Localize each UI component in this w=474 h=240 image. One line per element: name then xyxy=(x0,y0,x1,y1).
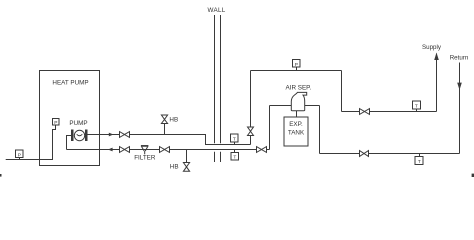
valve B3 (gate valve near wall) xyxy=(257,147,267,153)
svg-text:Supply: Supply xyxy=(422,44,442,51)
svg-text:WALL: WALL xyxy=(207,7,225,14)
svg-text:AIR SEP.: AIR SEP. xyxy=(286,84,312,91)
label EXP. TANK xyxy=(288,121,305,137)
valve HB (hose bib, vertical) xyxy=(183,163,189,172)
valve HB (hose bib, vertical) xyxy=(161,115,167,124)
svg-text:T: T xyxy=(233,137,236,143)
svg-text:FILTER: FILTER xyxy=(134,155,156,162)
valve B1 (gate valve) xyxy=(120,147,130,153)
svg-text:P: P xyxy=(18,152,21,158)
wire air separator line xyxy=(270,105,320,107)
valve A2 (gate valve, vertical) xyxy=(248,127,254,136)
wall (double line, upper segment) xyxy=(215,15,221,143)
wire bottom return run xyxy=(320,153,460,155)
filter (strainer funnel) xyxy=(141,146,149,154)
wire pipe B (return to pump suction) xyxy=(67,149,270,151)
flow arrow (toward pump) xyxy=(108,148,113,152)
svg-text:HB: HB xyxy=(170,163,179,170)
valve A1 (gate valve) xyxy=(120,132,130,138)
valve B2 (gate valve) xyxy=(160,147,170,153)
valve S1 (gate valve) xyxy=(360,109,370,115)
wire riser to overhead header xyxy=(250,71,252,145)
svg-text:HEAT PUMP: HEAT PUMP xyxy=(52,79,88,86)
svg-text:Return: Return xyxy=(450,54,469,61)
wire pump suction elbow xyxy=(67,136,72,150)
valve R1 (gate valve) xyxy=(360,151,369,157)
wire pipe A (pump discharge) xyxy=(88,135,251,145)
svg-text:HB: HB xyxy=(169,116,178,123)
wire header drop to supply run xyxy=(341,71,343,112)
wall (double line, lower segment below pipes) xyxy=(215,152,221,162)
svg-text:T: T xyxy=(418,159,421,165)
wire overhead header xyxy=(251,70,342,72)
svg-text:EXP.: EXP. xyxy=(289,121,303,128)
sensing line from pump gauge to remote gauge xyxy=(6,125,56,160)
arrow Return (down) xyxy=(457,83,462,90)
svg-text:PUMP: PUMP xyxy=(69,120,87,127)
air separator xyxy=(291,92,306,110)
svg-text:P: P xyxy=(295,62,298,68)
gauge P (on header) xyxy=(293,60,301,71)
wire hose-bib riser xyxy=(164,124,166,135)
thermometer T (return, at wall) xyxy=(231,150,239,161)
heat pump enclosure box xyxy=(40,71,100,166)
frame corner mark (bottom left) xyxy=(0,174,2,177)
expansion tank xyxy=(284,117,308,146)
thermometer T (supply, at wall) xyxy=(231,134,239,145)
svg-text:T: T xyxy=(415,104,418,110)
wire riser pipe B to air separator line xyxy=(269,106,271,150)
frame corner mark (bottom right) xyxy=(472,174,474,177)
wire air sep to expansion tank xyxy=(296,111,298,117)
remote gauge P (bottom left) xyxy=(16,150,24,160)
wire return drop xyxy=(459,63,461,154)
pump P1 (circle with impeller mark and flanges) xyxy=(71,130,88,142)
wire supply run xyxy=(342,111,437,113)
wire supply riser xyxy=(436,54,438,112)
arrow Supply (up) xyxy=(434,53,439,61)
wire hose-bib drop xyxy=(186,150,188,163)
thermometer T (return) xyxy=(415,154,423,166)
svg-text:TANK: TANK xyxy=(288,130,305,137)
gauge P (at pump) xyxy=(53,119,60,127)
svg-text:T: T xyxy=(233,155,236,161)
thermometer T (supply) xyxy=(413,101,421,112)
wire riser air sep line down to bottom return line xyxy=(319,106,321,154)
flow arrow (away from pump) xyxy=(109,133,114,137)
